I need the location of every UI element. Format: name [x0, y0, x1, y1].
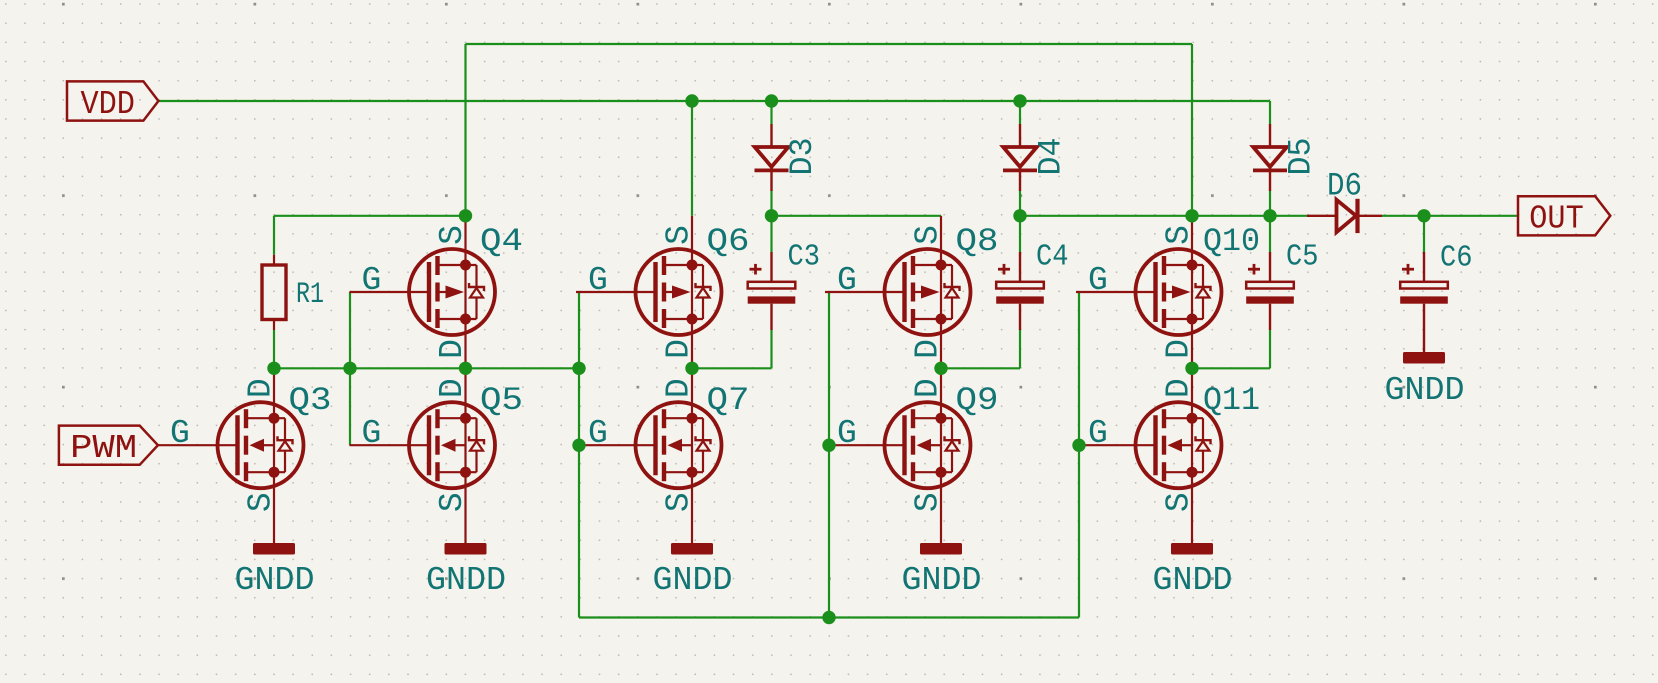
- svg-text:C4: C4: [1036, 240, 1069, 275]
- ground GNDD under Q11: [1153, 543, 1233, 600]
- svg-text:D: D: [1161, 339, 1198, 359]
- pin names Q6: [588, 225, 698, 359]
- junction (692,368): [685, 362, 698, 375]
- transistor Q10: [1076, 216, 1222, 368]
- junction (1192,215): [1185, 209, 1198, 222]
- svg-text:Q3: Q3: [289, 382, 332, 419]
- capacitor C6: [1400, 264, 1448, 304]
- ground GNDD under Q9: [902, 543, 982, 600]
- wire Q6 Q7 gate column: [578, 292, 580, 618]
- svg-text:S: S: [910, 225, 947, 245]
- svg-text:D: D: [1161, 378, 1198, 398]
- svg-text:G: G: [362, 415, 382, 452]
- wire VDD to D3: [770, 101, 772, 124]
- svg-text:S: S: [434, 225, 471, 245]
- wire D3 to C3 node: [770, 191, 772, 216]
- svg-text:C6: C6: [1440, 241, 1473, 276]
- svg-text:G: G: [362, 262, 382, 299]
- wire node C5 link: [1192, 215, 1270, 217]
- wire Q10 Q11 gate column: [1078, 292, 1080, 618]
- svg-text:OUT: OUT: [1529, 201, 1584, 238]
- junction (579,368): [572, 362, 585, 375]
- transistor Q4: [350, 216, 496, 368]
- svg-text:GNDD: GNDD: [653, 562, 733, 600]
- wire VDD to D5: [1269, 101, 1271, 124]
- diode D5: [1253, 124, 1287, 191]
- output flag OUT: [1518, 196, 1610, 238]
- svg-text:Q5: Q5: [480, 382, 523, 419]
- svg-text:G: G: [170, 415, 190, 452]
- svg-text:Q10: Q10: [1203, 223, 1260, 260]
- svg-text:D: D: [434, 339, 471, 359]
- wire C5 node to D6: [1270, 215, 1307, 217]
- pin names Q5: [362, 378, 472, 512]
- junction (1079,445): [1072, 439, 1085, 452]
- svg-text:S: S: [1161, 492, 1198, 512]
- svg-text:Q9: Q9: [956, 382, 999, 419]
- wire mid rail Q10 to C5: [1192, 367, 1270, 369]
- power flag VDD: [67, 81, 158, 123]
- wire R1 bottom to mid rail: [273, 330, 275, 368]
- svg-text:G: G: [837, 415, 857, 452]
- junction (274,368): [267, 362, 280, 375]
- transistor Q8: [825, 216, 971, 368]
- svg-text:S: S: [1161, 225, 1198, 245]
- pin names Q7: [588, 378, 698, 512]
- wire Q8 Q9 gate column: [828, 292, 830, 618]
- transistor Q7: [576, 368, 722, 545]
- svg-text:D4: D4: [1033, 138, 1070, 176]
- wire R1 top link: [274, 215, 466, 217]
- pin names Q10: [1088, 225, 1198, 359]
- svg-text:S: S: [434, 492, 471, 512]
- wire mid rail left: [274, 367, 579, 369]
- svg-text:D: D: [661, 378, 698, 398]
- junction (1192,368): [1185, 362, 1198, 375]
- transistor Q9: [825, 368, 971, 545]
- wire node C3 to Q8 source: [772, 215, 942, 217]
- capacitor C3: [748, 264, 796, 304]
- svg-text:C5: C5: [1286, 240, 1319, 275]
- svg-text:S: S: [243, 492, 280, 512]
- junction (465,368): [459, 362, 472, 375]
- svg-text:PWM: PWM: [70, 430, 137, 467]
- capacitor C5: [1246, 264, 1294, 304]
- wire OUT node to C6: [1423, 216, 1425, 252]
- ground GNDD under Q3: [235, 543, 315, 600]
- wire VDD to D4: [1019, 101, 1021, 124]
- svg-text:GNDD: GNDD: [235, 562, 315, 600]
- capacitor C4: [996, 264, 1044, 304]
- junction (1020,101): [1013, 94, 1026, 107]
- wire mid rail Q8 to C4: [941, 367, 1020, 369]
- junction (579,445): [572, 439, 585, 452]
- diode D4: [1003, 124, 1037, 191]
- svg-text:Q4: Q4: [480, 223, 523, 260]
- wire VDD rail: [159, 100, 1271, 102]
- ground GNDD under C6: [1385, 352, 1465, 410]
- wire VDD to Q6 source: [691, 101, 693, 216]
- junction (941,368): [934, 362, 947, 375]
- svg-text:GNDD: GNDD: [902, 562, 982, 600]
- junction (692,101): [685, 94, 698, 107]
- svg-text:Q8: Q8: [956, 223, 999, 260]
- svg-text:Q11: Q11: [1203, 382, 1260, 419]
- ground GNDD under Q7: [653, 543, 733, 600]
- junction (829,617): [822, 611, 835, 624]
- wire D4 to C4 node: [1019, 191, 1021, 216]
- resistor R1: [262, 255, 286, 330]
- svg-text:VDD: VDD: [80, 86, 135, 123]
- diode D6: [1307, 199, 1382, 233]
- wire Q4 Q5 gate column: [349, 292, 351, 445]
- wire drop Q4 source: [464, 44, 466, 216]
- svg-text:D3: D3: [784, 138, 821, 176]
- junction (771,215): [765, 209, 778, 222]
- wire top feedback rail: [466, 43, 1193, 45]
- svg-text:G: G: [588, 262, 608, 299]
- wire D6 to OUT node: [1382, 215, 1518, 217]
- wire bottom rail: [579, 616, 1079, 618]
- pin names Q9: [837, 378, 947, 512]
- transistor Q5: [350, 368, 496, 545]
- wire mid rail Q6 to C3: [692, 367, 772, 369]
- svg-text:D: D: [910, 339, 947, 359]
- svg-text:G: G: [1088, 415, 1108, 452]
- junction (1270,215): [1263, 209, 1276, 222]
- svg-text:D5: D5: [1283, 138, 1320, 176]
- svg-text:D: D: [434, 378, 471, 398]
- transistor Q6: [576, 216, 722, 368]
- junction (1020,215): [1013, 209, 1026, 222]
- wire D5 to C5 node: [1269, 191, 1271, 216]
- svg-text:D: D: [910, 378, 947, 398]
- pin names Q4: [362, 225, 472, 359]
- svg-text:Q6: Q6: [707, 223, 750, 260]
- svg-text:D: D: [243, 378, 280, 398]
- svg-text:G: G: [1088, 262, 1108, 299]
- wire drop Q10 source: [1191, 44, 1193, 216]
- junction (829,445): [822, 439, 835, 452]
- transistor Q3: [158, 368, 304, 545]
- svg-text:D6: D6: [1327, 168, 1362, 205]
- svg-text:GNDD: GNDD: [426, 562, 506, 600]
- svg-text:S: S: [661, 225, 698, 245]
- svg-text:G: G: [837, 262, 857, 299]
- pin names Q8: [837, 225, 947, 359]
- junction (771,101): [765, 94, 778, 107]
- ground GNDD under Q5: [426, 543, 506, 600]
- wire node C4 to Q10 source: [1020, 215, 1192, 217]
- svg-text:R1: R1: [296, 278, 324, 312]
- diode D3: [755, 124, 789, 191]
- svg-text:GNDD: GNDD: [1385, 372, 1465, 410]
- svg-text:S: S: [910, 492, 947, 512]
- junction (350,368): [343, 362, 356, 375]
- transistor Q11: [1076, 368, 1222, 545]
- svg-text:GNDD: GNDD: [1153, 562, 1233, 600]
- input flag PWM: [59, 426, 158, 468]
- svg-text:G: G: [588, 415, 608, 452]
- svg-text:C3: C3: [788, 240, 821, 275]
- svg-text:Q7: Q7: [707, 382, 750, 419]
- svg-text:S: S: [661, 492, 698, 512]
- pin names Q11: [1088, 378, 1198, 512]
- svg-text:D: D: [661, 339, 698, 359]
- junction (465,215): [459, 209, 472, 222]
- junction (1424,215): [1417, 209, 1430, 222]
- pin names Q3: [170, 378, 280, 512]
